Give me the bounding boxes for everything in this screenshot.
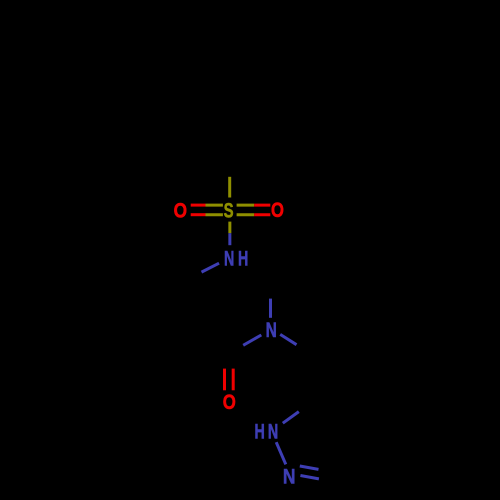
wire: C=O double bond right line (red half) — [232, 369, 235, 391]
svg-text:H: H — [254, 420, 264, 443]
wire: N2=C3 double bond upper line blue half — [300, 466, 319, 469]
svg-text:H: H — [238, 247, 248, 270]
wire: N2=C3 double bond lower line blue half — [300, 476, 319, 479]
svg-text:O: O — [223, 392, 236, 415]
wire: bond N(amide)-CH2 blue half — [280, 334, 296, 344]
wire: bond N1-N2 pyrazole — [276, 442, 286, 464]
wire: bond N(amide)-CH3 blue half — [269, 299, 272, 318]
wire: S=O right double bond lower line — [237, 213, 255, 216]
svg-text:N: N — [268, 420, 278, 443]
wire: S=O right double bond upper line — [237, 204, 255, 207]
svg-text:N: N — [266, 317, 277, 341]
wire: C=O double bond left line (red half) — [223, 369, 226, 391]
wire: bond C(phenyl)-S upper half (S side) — [228, 177, 231, 198]
wire: bond N1(pyrazole)-C5 blue half — [283, 412, 299, 424]
svg-text:O: O — [174, 200, 187, 223]
wire: bond S-N(H) — [228, 222, 231, 234]
svg-text:O: O — [271, 199, 284, 222]
wire: S=O left double bond upper line — [191, 204, 206, 207]
wire: bond C(=O)-N(amide) blue half — [243, 335, 261, 345]
wire: bond NH-C(ring) blue half — [202, 263, 220, 272]
svg-text:N: N — [224, 247, 234, 270]
svg-text:S: S — [224, 199, 234, 222]
wire: S=O left double bond lower line — [191, 213, 206, 216]
svg-text:N: N — [283, 466, 296, 489]
